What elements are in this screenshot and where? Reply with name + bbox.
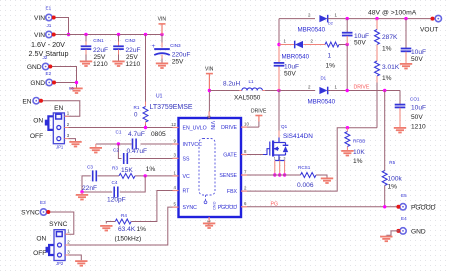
svg-text:J1: J1 [47, 23, 52, 28]
svg-text:INTVCC: INTVCC [183, 142, 203, 148]
svg-text:10K: 10K [353, 149, 365, 156]
wire D1 row from SW [279, 90, 315, 92]
terminal E6 PGOOD [400, 204, 406, 210]
ground CIN2 [112, 61, 124, 66]
terminal J1 VIN [46, 31, 52, 37]
node snubber junction [346, 43, 349, 46]
capacitor CIN3 polarized [151, 35, 190, 66]
capacitor charge pump 10uF right [342, 19, 369, 47]
wire SS row C2 [118, 144, 121, 159]
node FBX RFBB junction [346, 126, 349, 129]
ground U1 pin 13 [203, 223, 215, 228]
svg-text:E5: E5 [401, 193, 407, 198]
capacitor charge pump 10uF left [274, 63, 299, 78]
svg-text:JP2: JP2 [56, 261, 64, 266]
wire output rail top [279, 18, 315, 20]
wire L1 to SW node [265, 90, 279, 92]
svg-text:8.2uH: 8.2uH [223, 81, 240, 88]
U1 right pin stubs [241, 126, 247, 128]
svg-text:MBR0540: MBR0540 [298, 27, 326, 34]
svg-text:50V: 50V [411, 56, 423, 63]
ground compensation [81, 192, 83, 194]
node C3 C4 ground junction [80, 190, 83, 193]
resistor R3 15K [112, 166, 155, 179]
svg-text:MBR0540: MBR0540 [308, 98, 336, 105]
svg-text:12: 12 [171, 122, 176, 127]
svg-text:25V: 25V [172, 58, 184, 65]
wire E1 to input rail [53, 18, 69, 35]
Q1 source pin stubs [274, 161, 276, 176]
svg-text:CIN2: CIN2 [125, 38, 136, 43]
svg-text:120pF: 120pF [107, 196, 126, 203]
terminal E5 EN [33, 98, 39, 104]
wire divider middle [376, 45, 378, 62]
capacitor CO1 10uF output [395, 91, 426, 131]
capacitor CIN1 [81, 35, 108, 68]
wire JP1 pin3 to ground [69, 139, 76, 141]
ground CIN3 [156, 63, 168, 68]
header JP2 SYNC [49, 221, 68, 266]
terminal E3 SYNC [40, 209, 46, 215]
wire FBX row [247, 128, 377, 191]
svg-text:E6: E6 [69, 86, 74, 90]
capacitor C2 0.47uF [113, 147, 147, 164]
wire C4 row [82, 191, 112, 193]
svg-text:1%: 1% [326, 63, 336, 70]
power symbol VIN left [158, 16, 167, 34]
svg-text:0: 0 [134, 112, 138, 119]
node Q1 source junctions [273, 173, 276, 176]
svg-text:287K: 287K [382, 34, 398, 41]
svg-text:50V: 50V [411, 114, 423, 121]
svg-text:D2: D2 [328, 22, 333, 26]
capacitor C4 120pF [107, 180, 126, 204]
svg-text:1%: 1% [382, 46, 392, 53]
svg-text:10uF: 10uF [411, 49, 426, 56]
svg-text:OFF: OFF [30, 133, 43, 140]
svg-text:50V: 50V [354, 40, 366, 47]
wire DRIVE pin to symbol [247, 126, 259, 128]
svg-text:1210: 1210 [411, 123, 426, 130]
svg-text:U1: U1 [156, 93, 163, 99]
svg-text:1%: 1% [137, 226, 147, 233]
U1 left pin stubs [173, 127, 179, 129]
node EN_UVLO R1 junction [144, 126, 147, 129]
svg-text:R4: R4 [121, 213, 127, 218]
wire VIN to L1 [209, 90, 239, 92]
svg-text:10: 10 [244, 122, 249, 127]
wire VIN input rail [53, 34, 163, 36]
svg-text:EN: EN [54, 105, 63, 112]
svg-text:PGOOD: PGOOD [411, 205, 436, 212]
terminal E4 GND [400, 228, 406, 234]
svg-text:DRIVE: DRIVE [221, 125, 237, 131]
op-amp U1 LT3759EMSE body [150, 93, 242, 217]
resistor divider 287K [375, 19, 399, 53]
svg-text:VIN: VIN [158, 16, 167, 22]
svg-text:LT3759EMSE: LT3759EMSE [150, 104, 193, 111]
ground E4 [380, 237, 392, 242]
svg-text:SENSE: SENSE [219, 173, 237, 179]
svg-text:48V @ >100mA: 48V @ >100mA [368, 10, 417, 17]
wire SENSE row [247, 174, 301, 176]
svg-text:0.47uF: 0.47uF [127, 148, 148, 155]
svg-text:1%: 1% [382, 75, 392, 82]
svg-text:VIN: VIN [34, 15, 45, 22]
svg-text:1210: 1210 [93, 61, 108, 68]
svg-text:CO1: CO1 [410, 97, 420, 102]
svg-text:C2: C2 [113, 147, 119, 152]
U1 internal dashed block [199, 139, 215, 201]
ground JP2 pin3 [75, 261, 87, 266]
capacitor CIN2 [113, 35, 140, 68]
svg-text:10uF: 10uF [284, 64, 299, 71]
transistor Q1 SiS414DN [270, 124, 313, 161]
U1 pin names [183, 121, 238, 211]
svg-text:GND: GND [212, 202, 216, 211]
pin stubs JP1 [64, 115, 68, 117]
resistor R4 63.4K [115, 213, 147, 242]
power symbol DRIVE [251, 108, 267, 127]
svg-text:CIN1: CIN1 [93, 38, 104, 43]
wire R4 to RT pin [131, 191, 172, 222]
svg-text:ON: ON [36, 236, 46, 243]
wire JP2 pin3 to ground [69, 255, 82, 260]
svg-text:1%: 1% [353, 158, 363, 165]
node output filter cap junction [404, 17, 407, 20]
svg-text:PG: PG [271, 201, 279, 207]
wire RCS1 to ground [316, 175, 327, 178]
svg-text:3.01K: 3.01K [382, 64, 400, 71]
svg-text:DRIVE: DRIVE [251, 108, 267, 114]
node SW junction [277, 89, 280, 92]
wire C3 to ground node [82, 176, 91, 192]
svg-text:1210: 1210 [126, 61, 141, 68]
ground C1 [95, 144, 97, 147]
jumper shunt JP2 pins 2-3 OFF [49, 245, 54, 255]
svg-text:(150kHz): (150kHz) [115, 235, 142, 242]
wire PGOOD row [247, 206, 397, 208]
wire snubber to cap column [339, 44, 347, 46]
svg-text:C4: C4 [112, 180, 118, 185]
ground CIN1 [80, 61, 92, 66]
node R1 rail junction [144, 33, 147, 36]
svg-text:VC: VC [183, 174, 190, 180]
svg-text:JP1: JP1 [56, 144, 64, 149]
svg-text:GND: GND [27, 64, 42, 71]
wire SW to Q1 drain [278, 91, 280, 131]
svg-text:J2: J2 [43, 55, 48, 60]
wire D3 to snubber resistor [303, 44, 325, 46]
wire SW column up [278, 67, 280, 91]
svg-text:VIN: VIN [34, 32, 45, 39]
header JP1 EN [53, 105, 64, 149]
svg-text:15K: 15K [121, 167, 133, 174]
capacitor C1 4.7uF [116, 130, 167, 150]
resistor R5 100k [382, 91, 402, 207]
svg-text:DRIVE: DRIVE [354, 84, 370, 90]
svg-text:XAL5050: XAL5050 [234, 95, 261, 102]
svg-text:4.7uF: 4.7uF [128, 131, 145, 138]
svg-text:0805: 0805 [151, 131, 166, 138]
capacitor output 10uF 50V [401, 19, 426, 63]
svg-text:D1: D1 [321, 75, 327, 80]
terminal E2 GND [46, 79, 52, 85]
diode D1 MBR0540 [308, 75, 338, 105]
node input rail junction E1 [67, 33, 70, 36]
svg-text:22uF: 22uF [93, 47, 108, 54]
wire EN_UVLO row JP1 pin2 to U1 pin 12 [69, 127, 173, 129]
svg-text:10uF: 10uF [411, 104, 426, 111]
svg-text:1.6V - 20V: 1.6V - 20V [31, 40, 65, 49]
svg-text:GATE: GATE [223, 153, 237, 159]
svg-text:C3: C3 [87, 165, 93, 170]
node output cap2 junction [346, 17, 349, 20]
svg-text:ON: ON [33, 118, 43, 125]
wire GATE row [247, 154, 263, 156]
wire divider column to FBX [376, 76, 378, 83]
jumper shunt JP1 pins 1-2 ON [48, 116, 53, 130]
svg-text:RCS1: RCS1 [298, 165, 311, 170]
U1 top pin 11 stub [208, 111, 210, 118]
node GND junction [75, 81, 78, 84]
power symbol VIN right [205, 67, 214, 91]
svg-text:FBX: FBX [227, 189, 238, 195]
wire VC row [98, 175, 120, 177]
wire D2 to output rail [328, 18, 433, 20]
node CIN2 rail junction [117, 33, 120, 36]
node divider junction [375, 17, 378, 20]
node C1 C2 junction [117, 142, 120, 145]
node PGOOD R5 junction [383, 205, 386, 208]
svg-text:GND: GND [30, 80, 45, 87]
svg-text:E1: E1 [46, 6, 52, 11]
svg-text:220uF: 220uF [172, 51, 191, 58]
wire EN to JP1 pin 1 [40, 101, 80, 117]
wire INTVCC row [96, 143, 132, 145]
svg-text:E3: E3 [40, 200, 46, 205]
svg-text:VIN: VIN [209, 121, 215, 130]
inductor L1 8.2uH [223, 79, 265, 102]
svg-text:SS: SS [183, 156, 190, 162]
resistor snubber 1 ohm [325, 42, 339, 70]
resistor RCS1 0.006 [297, 165, 316, 189]
svg-text:L1: L1 [249, 79, 255, 84]
svg-text:RFBB: RFBB [353, 139, 365, 144]
svg-text:1: 1 [328, 53, 332, 60]
svg-text:R5: R5 [389, 160, 395, 165]
svg-text:CIN3: CIN3 [170, 43, 181, 48]
resistor divider 3.01K [375, 61, 400, 82]
terminal VOUT [435, 15, 441, 21]
svg-text:Q1: Q1 [281, 124, 288, 129]
svg-text:EN_UVLO: EN_UVLO [183, 126, 207, 132]
ground RFBB [346, 147, 348, 151]
pin stubs JP2 [65, 233, 68, 235]
svg-text:SiS414DN: SiS414DN [283, 133, 313, 140]
wire DRIVE row [328, 90, 400, 92]
svg-text:R1: R1 [134, 105, 140, 110]
svg-text:2: 2 [279, 157, 281, 161]
svg-text:2.5V Startup: 2.5V Startup [29, 49, 69, 58]
svg-text:PGOOD: PGOOD [218, 205, 238, 211]
wire cap2 column to DRIVE row [346, 45, 348, 91]
svg-text:100k: 100k [388, 176, 403, 183]
ground CO1 [394, 128, 406, 133]
U1 pin numbers [171, 115, 249, 225]
svg-text:25V: 25V [94, 54, 106, 61]
svg-text:SYNC: SYNC [49, 221, 68, 228]
ground R4 [106, 222, 115, 224]
svg-text:E4: E4 [401, 216, 407, 221]
node DRIVE cap junction [346, 89, 349, 92]
diode D2 MBR0540 [298, 13, 338, 34]
svg-text:22nF: 22nF [82, 185, 97, 192]
svg-text:11: 11 [206, 115, 211, 120]
svg-text:0.006: 0.006 [297, 182, 314, 189]
wire JP2 pin2 to U1 SYNC [69, 207, 173, 245]
node CIN1 rail junction [84, 33, 87, 36]
svg-text:VIN: VIN [205, 67, 214, 73]
node CIN3 VIN junction [160, 33, 163, 36]
resistor R1 0 ohm [134, 35, 149, 128]
node VIN inductor junction [208, 89, 211, 92]
capacitor C3 22nF [82, 165, 97, 192]
terminal E1 VIN [46, 14, 52, 20]
svg-text:1: 1 [274, 157, 276, 161]
wire D3 row [279, 44, 294, 46]
svg-text:E2: E2 [46, 71, 52, 76]
node VC junction [144, 174, 147, 177]
node DRIVE R5 junction [383, 89, 386, 92]
node charge pump row2 junction [277, 43, 280, 46]
svg-text:R3: R3 [112, 166, 118, 171]
svg-text:1%: 1% [388, 183, 398, 190]
ground input [70, 88, 82, 93]
svg-text:22uF: 22uF [126, 47, 141, 54]
wire J2 GND to ground node [49, 67, 76, 83]
svg-text:50V: 50V [284, 71, 296, 78]
svg-text:25V: 25V [126, 54, 138, 61]
wire SYNC to JP2 pin 1 [47, 212, 74, 234]
svg-text:3: 3 [284, 157, 286, 161]
svg-text:RT: RT [183, 189, 191, 195]
svg-text:SYNC: SYNC [183, 205, 198, 211]
diode D3 MBR0540 [282, 39, 314, 61]
svg-text:OFF: OFF [33, 250, 46, 257]
U1 bottom pin 13 stub [208, 217, 210, 223]
svg-text:1%: 1% [146, 166, 156, 173]
svg-text:VOUT: VOUT [420, 27, 438, 34]
resistor RFBB 10K [345, 128, 365, 165]
svg-text:C1: C1 [116, 130, 122, 135]
svg-text:EN: EN [22, 98, 31, 105]
svg-text:SYNC: SYNC [21, 210, 40, 217]
svg-text:63.4K: 63.4K [118, 226, 136, 233]
svg-text:GND: GND [411, 229, 426, 236]
wire E2 GND [53, 83, 77, 88]
wire VIN to U1 pin 11 [208, 91, 210, 112]
svg-text:MBR0540: MBR0540 [282, 54, 310, 61]
ground JP1 pin3 [69, 142, 81, 147]
ground RCS1 [321, 178, 333, 183]
wire E4 GND to ground [386, 231, 399, 235]
terminal J2 GND [42, 63, 48, 69]
ground output cap [400, 64, 412, 69]
